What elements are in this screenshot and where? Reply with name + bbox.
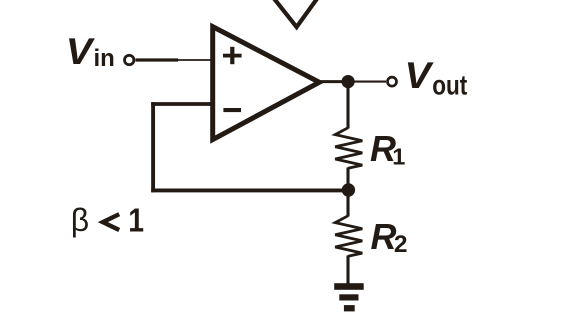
op-amp + input marker (223, 47, 242, 64)
label Vin (66, 31, 115, 73)
ground (334, 283, 364, 311)
wire R1 to feedback node (346, 168, 349, 191)
node Vout junction (342, 75, 355, 88)
svg-text:in: in (94, 45, 115, 72)
svg-text:V: V (66, 31, 96, 73)
label R2 (371, 216, 408, 258)
svg-text:1: 1 (128, 202, 144, 240)
svg-text:R: R (371, 216, 397, 257)
wire op-amp output to Vout node (320, 80, 348, 83)
node feedback junction (342, 183, 355, 196)
label Vout (405, 55, 468, 101)
cropped triangle symbol (top chevron) (272, 0, 319, 27)
terminal Vout (388, 77, 397, 86)
svg-text:V: V (405, 55, 435, 97)
wire feedback horizontal bottom (151, 188, 348, 192)
svg-text:1: 1 (392, 143, 405, 169)
wire feedback vertical (151, 102, 155, 192)
wire Vin terminal to op-amp + input (thick part) (136, 58, 179, 61)
svg-text:out: out (432, 70, 468, 101)
wire op-amp - input to feedback corner (151, 102, 213, 106)
wire Vout node to terminal (348, 81, 386, 83)
wire Vout node down to R1 (346, 82, 349, 129)
wire Vin to op-amp + input (thin part) (178, 59, 212, 61)
wire R2 to ground (346, 256, 349, 285)
terminal Vin (125, 55, 134, 64)
op-amp U1 (213, 27, 320, 140)
wire feedback node down to R2 (346, 190, 349, 217)
svg-text:2: 2 (394, 231, 408, 258)
op-amp - input marker (223, 108, 241, 112)
label R1 (370, 128, 405, 169)
label beta < 1 (71, 202, 144, 240)
resistor R2 (335, 216, 362, 256)
svg-text:β: β (71, 202, 89, 238)
resistor R1 (335, 128, 362, 169)
